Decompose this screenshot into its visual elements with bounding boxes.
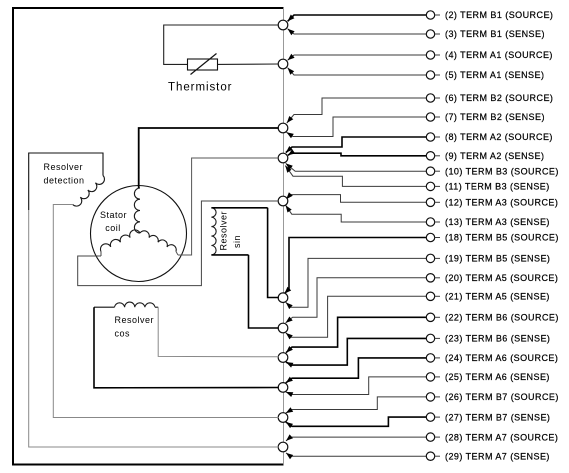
svg-text:(6) TERM B2 (SOURCE): (6) TERM B2 (SOURCE) bbox=[445, 93, 553, 103]
wire terminal 11 to junction J4 bbox=[285, 166, 426, 187]
label Stator coil bbox=[100, 210, 127, 233]
resolver cos coil L3 bbox=[115, 302, 156, 307]
terminal pin (3) TERM B1 (SENSE) bbox=[426, 29, 545, 39]
svg-text:(27) TERM B7 (SENSE): (27) TERM B7 (SENSE) bbox=[445, 412, 550, 422]
stator winding phase lower-left coil bbox=[100, 230, 140, 252]
wire resolver sin top to J6 bbox=[268, 208, 279, 298]
stator winding phase top coil bbox=[134, 188, 140, 233]
resolver cos box outline bbox=[94, 306, 158, 308]
junction node J2 on housing boundary bbox=[278, 59, 288, 69]
terminal pin (8) TERM A2 (SOURCE) bbox=[426, 132, 553, 142]
svg-text:(11) TERM B3 (SENSE): (11) TERM B3 (SENSE) bbox=[445, 182, 550, 192]
junction node J11 on housing boundary bbox=[278, 442, 288, 452]
wire terminal 27 to junction J10 bbox=[286, 417, 427, 428]
wire terminal 4 to junction J2 bbox=[288, 54, 427, 61]
terminal pin (10) TERM B3 (SOURCE) bbox=[426, 166, 559, 176]
wire terminal 2 to junction J1 bbox=[288, 15, 427, 22]
terminal pin (2) TERM B1 (SOURCE) bbox=[426, 10, 553, 20]
resolver detection coil L4 bbox=[73, 176, 105, 207]
stator winding phase lower-right coil bbox=[140, 231, 176, 252]
junction node J9 on housing boundary bbox=[278, 383, 288, 393]
wire terminal 12 to junction J5 bbox=[286, 192, 426, 202]
wire terminal 21 to junction J7 bbox=[286, 296, 427, 339]
terminal pin (18) TERM B5 (SOURCE) bbox=[426, 233, 559, 243]
wire resolver cos right to J8 bbox=[158, 307, 279, 357]
terminal pin (19) TERM B5 (SENSE) bbox=[426, 254, 550, 264]
terminal pin (26) TERM B7 (SOURCE) bbox=[426, 392, 559, 402]
wire thermistor to J2 bbox=[218, 63, 279, 65]
thermistor RT1 bbox=[188, 54, 218, 75]
wire terminal 3 to junction J1 bbox=[288, 29, 427, 36]
terminal pin (24) TERM A6 (SOURCE) bbox=[426, 353, 558, 363]
label Thermistor bbox=[168, 82, 232, 94]
svg-text:(2) TERM B1 (SOURCE): (2) TERM B1 (SOURCE) bbox=[445, 10, 553, 20]
terminal pin (29) TERM A7 (SENSE) bbox=[426, 451, 550, 461]
junction node J5 on housing boundary bbox=[278, 196, 288, 206]
wire terminal 28 to junction J11 bbox=[286, 434, 426, 441]
wire resolver cos left to J9 bbox=[94, 307, 279, 388]
terminal pin (7) TERM B2 (SENSE) bbox=[426, 112, 545, 122]
svg-text:(18) TERM B5 (SOURCE): (18) TERM B5 (SOURCE) bbox=[445, 233, 559, 243]
svg-text:Resolver: Resolver bbox=[115, 315, 155, 325]
terminal pin (22) TERM B6 (SOURCE) bbox=[426, 313, 559, 323]
terminal pin (13) TERM A3 (SENSE) bbox=[426, 217, 550, 227]
terminal pin (20) TERM A5 (SOURCE) bbox=[426, 273, 558, 283]
svg-text:(25) TERM A6 (SENSE): (25) TERM A6 (SENSE) bbox=[445, 372, 550, 382]
wire terminal 23 to junction J8 bbox=[286, 338, 426, 367]
svg-text:Thermistor: Thermistor bbox=[168, 82, 232, 94]
resolver sin box outline bbox=[211, 208, 267, 255]
wire terminal 7 to junction J3 bbox=[287, 117, 427, 138]
terminal pin (25) TERM A6 (SENSE) bbox=[426, 372, 550, 382]
svg-text:(19) TERM B5 (SENSE): (19) TERM B5 (SENSE) bbox=[445, 254, 550, 264]
svg-text:sin: sin bbox=[232, 235, 242, 248]
wire terminal 18 to junction J6 bbox=[284, 238, 426, 294]
label Resolver cos bbox=[115, 315, 155, 339]
wire stator lower-right phase to J4 bbox=[176, 158, 279, 255]
wire stator lower-left phase to J5 bbox=[78, 201, 279, 286]
svg-text:(8) TERM A2 (SOURCE): (8) TERM A2 (SOURCE) bbox=[445, 132, 553, 142]
junction node J6 on housing boundary bbox=[278, 293, 288, 303]
svg-text:(4) TERM A1 (SOURCE): (4) TERM A1 (SOURCE) bbox=[445, 50, 553, 60]
svg-text:(3) TERM B1 (SENSE): (3) TERM B1 (SENSE) bbox=[445, 29, 545, 39]
wire terminal 20 to junction J7 bbox=[286, 278, 427, 323]
junction node J7 on housing boundary bbox=[278, 323, 288, 333]
wire resolver sin bottom to J7 bbox=[249, 255, 279, 328]
svg-text:cos: cos bbox=[115, 329, 131, 339]
wire terminal 5 to junction J2 bbox=[288, 68, 427, 75]
wire terminal 8 to junction J4 bbox=[286, 137, 427, 153]
terminal pin (4) TERM A1 (SOURCE) bbox=[426, 50, 553, 60]
svg-text:coil: coil bbox=[105, 223, 121, 233]
svg-text:(29) TERM A7 (SENSE): (29) TERM A7 (SENSE) bbox=[445, 451, 550, 461]
terminal pin (23) TERM B6 (SENSE) bbox=[426, 334, 550, 344]
svg-text:(9) TERM A2 (SENSE): (9) TERM A2 (SENSE) bbox=[445, 151, 544, 161]
wire terminal 9 to junction J4 bbox=[288, 149, 426, 156]
wire terminal 26 to junction J10 bbox=[286, 397, 427, 413]
svg-text:(12) TERM A3 (SOURCE): (12) TERM A3 (SOURCE) bbox=[445, 198, 558, 208]
enclosure frame (motor housing outline) bbox=[13, 8, 284, 465]
wire detection coil to J10 bbox=[53, 205, 278, 418]
junction node J4 on housing boundary bbox=[278, 153, 288, 163]
svg-text:Resolver: Resolver bbox=[44, 162, 84, 172]
svg-text:Resolver: Resolver bbox=[219, 211, 229, 251]
wire detection box to J11 bbox=[29, 210, 279, 447]
junction node J8 on housing boundary bbox=[278, 353, 288, 363]
label Resolver detection bbox=[44, 162, 85, 186]
terminal pin (5) TERM A1 (SENSE) bbox=[426, 70, 544, 80]
label Resolver sin (rotated) bbox=[219, 211, 243, 251]
wire terminal 25 to junction J9 bbox=[286, 377, 427, 397]
wire terminal 6 to junction J3 bbox=[287, 98, 427, 123]
junction node J3 on housing boundary bbox=[278, 123, 288, 133]
wire terminal 29 to junction J11 bbox=[286, 453, 426, 459]
svg-text:Stator: Stator bbox=[100, 210, 127, 220]
terminal pin (11) TERM B3 (SENSE) bbox=[426, 182, 549, 192]
wire terminal 19 to junction J6 bbox=[286, 258, 427, 309]
terminal pin (12) TERM A3 (SOURCE) bbox=[426, 198, 558, 208]
svg-text:(28) TERM A7 (SOURCE): (28) TERM A7 (SOURCE) bbox=[445, 432, 558, 442]
svg-text:(20) TERM A5 (SOURCE): (20) TERM A5 (SOURCE) bbox=[445, 273, 558, 283]
wire terminal 24 to junction J9 bbox=[286, 358, 427, 383]
terminal pin (9) TERM A2 (SENSE) bbox=[426, 151, 544, 161]
wire thermistor top to J1 bbox=[164, 25, 279, 64]
wire terminal 22 to junction J8 bbox=[286, 317, 426, 352]
svg-text:(7) TERM B2 (SENSE): (7) TERM B2 (SENSE) bbox=[445, 112, 545, 122]
resolver detection box outline bbox=[29, 153, 103, 210]
wire terminal 13 to junction J5 bbox=[286, 205, 427, 222]
wire stator top phase to J3 bbox=[139, 128, 279, 188]
enclosure right edge / terminal bus line bbox=[283, 8, 285, 465]
svg-text:(10) TERM B3 (SOURCE): (10) TERM B3 (SOURCE) bbox=[445, 166, 559, 176]
terminal pin (27) TERM B7 (SENSE) bbox=[426, 412, 550, 422]
svg-text:(22) TERM B6 (SOURCE): (22) TERM B6 (SOURCE) bbox=[445, 313, 559, 323]
wire terminal 10 to junction J4 bbox=[286, 163, 427, 171]
svg-text:detection: detection bbox=[44, 176, 85, 186]
svg-text:(13) TERM A3 (SENSE): (13) TERM A3 (SENSE) bbox=[445, 217, 550, 227]
svg-text:(21) TERM A5 (SENSE): (21) TERM A5 (SENSE) bbox=[445, 292, 550, 302]
stator coil motor circle bbox=[91, 186, 187, 282]
terminal pin (21) TERM A5 (SENSE) bbox=[426, 292, 550, 302]
junction node J1 on housing boundary bbox=[278, 20, 288, 30]
svg-text:(23) TERM B6 (SENSE): (23) TERM B6 (SENSE) bbox=[445, 334, 550, 344]
svg-text:(24) TERM A6 (SOURCE): (24) TERM A6 (SOURCE) bbox=[445, 353, 558, 363]
junction node J10 on housing boundary bbox=[278, 413, 288, 423]
svg-text:(5) TERM A1 (SENSE): (5) TERM A1 (SENSE) bbox=[445, 70, 544, 80]
resolver sin coil L2 bbox=[211, 208, 216, 255]
terminal pin (6) TERM B2 (SOURCE) bbox=[426, 93, 553, 103]
svg-text:(26) TERM B7 (SOURCE): (26) TERM B7 (SOURCE) bbox=[445, 392, 559, 402]
terminal pin (28) TERM A7 (SOURCE) bbox=[426, 432, 558, 442]
